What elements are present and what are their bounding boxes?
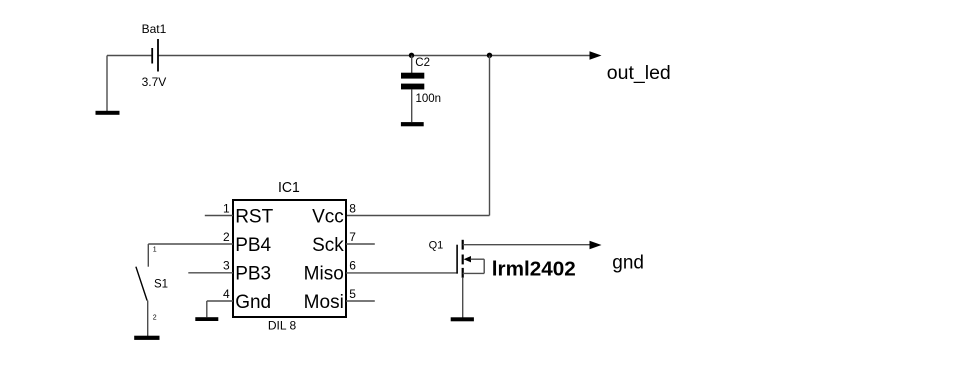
- pin 4 Gnd: [207, 287, 271, 317]
- ground (Q1 source): [451, 317, 474, 321]
- svg-text:6: 6: [349, 259, 356, 273]
- wire pin 8 stub: [346, 215, 490, 217]
- svg-text:lrml2402: lrml2402: [492, 258, 576, 280]
- svg-text:C2: C2: [415, 57, 430, 69]
- svg-text:out_led: out_led: [607, 62, 671, 84]
- svg-text:1: 1: [153, 246, 157, 253]
- IC IC1 (DIL 8) box: [233, 179, 346, 333]
- pin 6 Miso: [304, 259, 458, 285]
- arrowhead out_led: [590, 51, 602, 59]
- svg-text:3: 3: [223, 259, 230, 273]
- svg-text:3.7V: 3.7V: [142, 75, 167, 89]
- wire battery right plate to C2 junction: [158, 55, 412, 57]
- svg-text:RST: RST: [235, 206, 273, 227]
- ground (pin 4): [195, 317, 218, 321]
- capacitor C2: [401, 56, 441, 123]
- transistor Q1: [429, 239, 485, 277]
- svg-text:PB4: PB4: [235, 235, 271, 256]
- pin 5 Mosi: [304, 287, 375, 313]
- switch S1: [136, 244, 168, 336]
- pin 7 Sck: [312, 230, 375, 256]
- ground (S1): [134, 336, 159, 340]
- svg-text:IC1: IC1: [278, 179, 300, 196]
- svg-text:4: 4: [223, 287, 230, 301]
- wire battery left to short plate: [107, 55, 152, 57]
- svg-text:PB3: PB3: [235, 263, 271, 284]
- pin 3 PB3: [188, 259, 271, 285]
- svg-text:Q1: Q1: [429, 239, 444, 251]
- svg-text:Mosi: Mosi: [304, 292, 344, 313]
- svg-text:Miso: Miso: [304, 263, 344, 284]
- svg-text:2: 2: [153, 315, 157, 322]
- node junction at Vcc: [487, 53, 492, 58]
- wire source down: [462, 278, 464, 318]
- svg-text:DIL 8: DIL 8: [268, 319, 297, 333]
- ground (C2): [401, 122, 424, 126]
- svg-text:7: 7: [349, 230, 356, 244]
- wire drain to gnd arrow: [463, 244, 590, 246]
- wire battery negative down: [106, 56, 108, 112]
- arrowhead gnd: [590, 241, 602, 249]
- ground (battery): [96, 111, 120, 115]
- wire Vcc junction down to pin 8: [489, 56, 491, 216]
- battery Bat1: [142, 22, 167, 89]
- svg-text:Sck: Sck: [312, 235, 344, 256]
- svg-text:Gnd: Gnd: [235, 292, 271, 313]
- svg-text:1: 1: [223, 202, 230, 216]
- node junction at C2: [409, 53, 414, 58]
- svg-text:2: 2: [223, 230, 230, 244]
- svg-text:5: 5: [349, 287, 356, 301]
- svg-text:Vcc: Vcc: [312, 206, 344, 227]
- pin 2 PB4: [148, 230, 271, 256]
- svg-text:gnd: gnd: [612, 252, 644, 273]
- pin 8 Vcc label: [312, 202, 356, 228]
- svg-text:Bat1: Bat1: [142, 22, 167, 36]
- wire C2 junction to Vcc junction: [412, 55, 490, 57]
- svg-text:8: 8: [349, 202, 356, 216]
- svg-text:S1: S1: [154, 278, 168, 290]
- pin 1 RST: [205, 202, 274, 228]
- svg-text:100n: 100n: [416, 93, 442, 105]
- wire Vcc junction to out_led arrow: [490, 55, 592, 57]
